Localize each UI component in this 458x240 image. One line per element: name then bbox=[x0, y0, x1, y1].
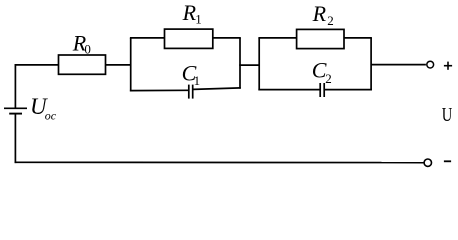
wire: RC loop 1 to RC loop 2 bbox=[239, 64, 260, 66]
svg-text:1: 1 bbox=[195, 12, 202, 27]
wire: RC loop 2 bottom edge left of C2 bbox=[258, 89, 319, 91]
svg-text:2: 2 bbox=[325, 71, 332, 86]
svg-text:U: U bbox=[442, 104, 453, 126]
capacitor C2: right plate bbox=[323, 83, 325, 97]
wire: top-left horizontal from node to R0 bbox=[15, 64, 59, 66]
svg-text:R: R bbox=[312, 1, 327, 26]
positive terminal circle bbox=[427, 61, 434, 68]
svg-text:oc: oc bbox=[45, 109, 57, 123]
label + (plus sign) bbox=[444, 62, 452, 70]
svg-text:0: 0 bbox=[84, 41, 91, 56]
resistor R1 bbox=[165, 29, 213, 48]
svg-text:2: 2 bbox=[327, 13, 334, 28]
label C2 bbox=[312, 57, 332, 86]
label C1 bbox=[182, 60, 201, 87]
battery Uoc: long positive plate bbox=[4, 107, 27, 109]
label R2 bbox=[312, 1, 334, 28]
capacitor C1: left plate bbox=[188, 85, 190, 99]
wire: left vertical from battery negative plate down to bottom rail bbox=[14, 114, 16, 163]
wire: RC loop 2 to positive terminal bbox=[371, 64, 426, 66]
capacitor C1: right plate bbox=[192, 85, 194, 99]
wire: RC loop 2 top edge bbox=[258, 37, 372, 39]
resistor R0 bbox=[59, 55, 106, 74]
wire: RC loop 1 bottom edge left of C1 bbox=[130, 89, 188, 91]
label Uoc bbox=[30, 94, 57, 122]
wire: RC loop 1 left edge bbox=[130, 38, 132, 92]
wire: left vertical from top node down to battery positive plate bbox=[14, 64, 16, 108]
negative terminal circle bbox=[424, 159, 431, 166]
wire: RC loop 2 left edge bbox=[258, 38, 260, 91]
label - (minus sign) bbox=[444, 160, 451, 162]
wire: bottom rail to negative terminal bbox=[15, 161, 424, 163]
label R1 bbox=[182, 0, 202, 26]
wire: RC loop 1 top edge bbox=[130, 37, 241, 39]
label R0 bbox=[72, 30, 91, 56]
resistor R2 bbox=[297, 29, 344, 48]
wire: R0 to RC loop 1 bbox=[106, 64, 132, 66]
battery Uoc: short negative plate bbox=[9, 113, 22, 115]
wire: RC loop 2 bottom edge right of C2 bbox=[325, 89, 372, 91]
wire: RC loop 1 right edge bbox=[239, 38, 241, 89]
wire: RC loop 1 bottom edge right of C1 bbox=[193, 88, 241, 90]
wire: RC loop 2 right edge bbox=[370, 38, 372, 91]
capacitor C2: left plate bbox=[319, 83, 321, 97]
svg-text:1: 1 bbox=[194, 73, 201, 88]
